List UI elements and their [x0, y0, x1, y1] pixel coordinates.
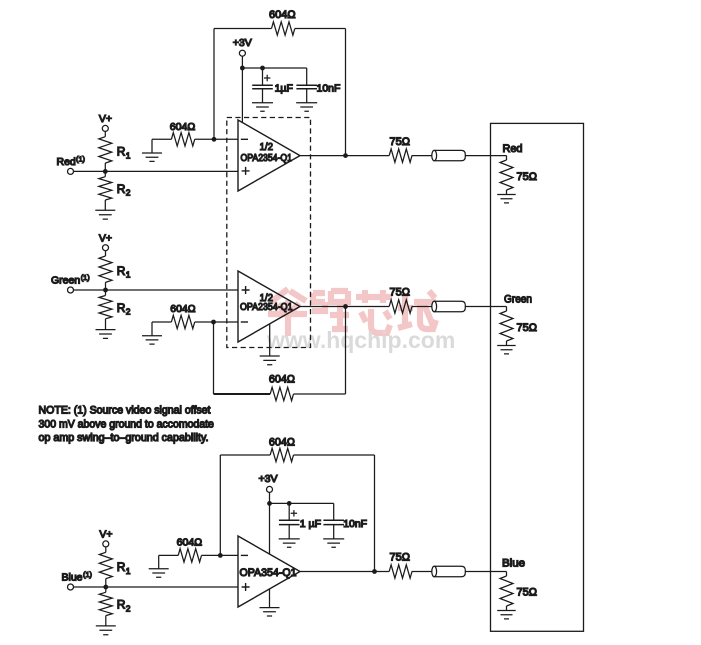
svg-text:75Ω: 75Ω	[517, 171, 538, 183]
wire +3V rail	[242, 67, 306, 69]
power V+ terminal (red divider)	[99, 113, 112, 137]
ground (dual op-amp V- pin)	[260, 324, 280, 365]
coax cable (red)	[432, 150, 507, 160]
ground (blue op-amp V- pin)	[260, 589, 280, 616]
svg-text:1µF: 1µF	[275, 83, 293, 95]
ground (under 1uF)	[252, 103, 273, 111]
svg-text:www.hqchip.com: www.hqchip.com	[266, 327, 455, 353]
node Green input: terminal and label	[51, 273, 90, 293]
svg-text:75Ω: 75Ω	[390, 552, 411, 564]
ground (under 10nF)	[296, 103, 317, 111]
junction red input node	[103, 169, 108, 174]
svg-text:R: R	[117, 301, 126, 315]
svg-text:V+: V+	[99, 232, 112, 244]
svg-text:Red: Red	[57, 156, 76, 168]
wire blue +3V rail	[270, 502, 334, 504]
ground (below blue R2)	[96, 626, 116, 635]
resistor 604ohm green feedback	[214, 374, 346, 401]
svg-text:75Ω: 75Ω	[390, 287, 411, 299]
svg-text:Green: Green	[51, 275, 80, 287]
resistor R1 (red divider)	[99, 137, 131, 172]
wire blue op-amp output	[300, 571, 389, 573]
watermark character 1 (hua)	[268, 289, 307, 336]
watermark character 2 (qiang)	[312, 291, 349, 329]
junction green inverting node	[211, 320, 216, 325]
svg-text:1/2: 1/2	[260, 141, 274, 153]
power V+ terminal (blue divider)	[99, 529, 112, 553]
resistor 75ohm blue termination	[500, 572, 537, 611]
ground (below green R2)	[96, 330, 116, 339]
svg-text:604Ω: 604Ω	[269, 9, 296, 21]
capacitor 10nF (blue op-amp bypass)	[323, 503, 367, 539]
junction +3V rail	[240, 66, 245, 71]
watermark character 4 (cheng)	[398, 291, 436, 329]
svg-text:OPA354-Q1: OPA354-Q1	[240, 567, 297, 579]
svg-text:op amp swing–to–ground capabil: op amp swing–to–ground capability.	[39, 432, 209, 444]
resistor 75ohm green series	[389, 287, 432, 313]
svg-text:Red: Red	[503, 143, 523, 155]
svg-text:2: 2	[126, 307, 131, 317]
resistor R2 (blue divider)	[99, 587, 131, 626]
op-amp U1A 1/2 OPA2354-Q1 (red)	[238, 120, 300, 191]
node Blue input: terminal and label	[62, 570, 93, 590]
resistor 604ohm blue gain	[159, 537, 238, 563]
ground (blue termination)	[497, 611, 516, 619]
capacitor 1uF (dual op-amp bypass)	[252, 68, 293, 103]
resistor 604ohm red feedback	[214, 9, 346, 35]
svg-text:R: R	[117, 560, 126, 574]
coax cable (green)	[432, 301, 507, 311]
ground (below red R2)	[95, 210, 115, 219]
ground (blue gain resistor)	[149, 555, 169, 577]
op-amp U1B 1/2 OPA2354-Q1 (green)	[238, 271, 300, 342]
resistor 75ohm red series	[389, 136, 432, 163]
junction blue 1uF branch	[287, 501, 292, 506]
junction green output/feedback	[343, 304, 348, 309]
svg-text:R: R	[117, 598, 126, 612]
ground (red gain resistor)	[142, 139, 162, 161]
wire red op-amp output	[300, 155, 389, 157]
junction blue inverting node	[218, 553, 223, 558]
svg-text:2: 2	[126, 188, 131, 198]
resistor 75ohm blue series	[389, 552, 432, 579]
svg-text:R: R	[117, 182, 126, 196]
junction blue +3V rail	[267, 501, 272, 506]
ground (green gain resistor)	[142, 322, 162, 344]
svg-text:604Ω: 604Ω	[170, 303, 195, 315]
dashed outline dual package OPA2354-Q1	[227, 118, 311, 348]
wire green feedback left vertical	[213, 322, 215, 394]
node Red input: terminal and label	[57, 154, 86, 174]
svg-text:Blue: Blue	[502, 558, 525, 570]
note text	[39, 405, 214, 444]
resistor R2 (red divider)	[99, 171, 131, 210]
svg-text:R: R	[117, 264, 126, 278]
power +3V terminal (blue op-amp)	[259, 473, 278, 503]
svg-text:(1): (1)	[81, 273, 90, 282]
svg-text:V+: V+	[99, 113, 112, 125]
svg-text:10nF: 10nF	[317, 83, 341, 95]
svg-text:Blue: Blue	[62, 572, 83, 584]
resistor 604ohm blue feedback	[220, 436, 374, 461]
svg-text:(1): (1)	[76, 154, 85, 163]
ground (green termination)	[497, 346, 516, 354]
wire red feedback right vertical	[345, 29, 347, 156]
ground (under blue 10nF)	[323, 539, 344, 547]
svg-text:NOTE: (1) Source video signal: NOTE: (1) Source video signal offset	[39, 405, 211, 417]
svg-text:OPA2354-Q1: OPA2354-Q1	[240, 302, 293, 313]
svg-text:604Ω: 604Ω	[269, 374, 295, 386]
svg-text:+3V: +3V	[233, 37, 252, 49]
wire Red input to op-amp +	[74, 170, 239, 172]
svg-text:75Ω: 75Ω	[390, 136, 411, 148]
svg-text:1: 1	[126, 270, 131, 280]
junction green input node	[103, 288, 108, 293]
junction red output/feedback	[343, 153, 348, 158]
svg-text:OPA2354-Q1: OPA2354-Q1	[241, 153, 293, 164]
svg-text:300 mV above ground to accomod: 300 mV above ground to accomodate	[39, 418, 214, 430]
junction blue input node	[103, 585, 108, 590]
svg-text:R: R	[117, 145, 126, 159]
svg-text:1 µF: 1 µF	[300, 518, 321, 530]
wire blue feedback left vertical	[219, 455, 221, 555]
wire green op-amp output	[300, 306, 389, 308]
svg-text:604Ω: 604Ω	[170, 121, 196, 133]
junction 1uF branch	[260, 66, 265, 71]
svg-text:+3V: +3V	[259, 473, 278, 485]
resistor 604ohm red gain	[152, 121, 238, 146]
svg-text:604Ω: 604Ω	[269, 436, 295, 448]
wire Green input to op-amp +	[74, 289, 239, 291]
svg-text:10nF: 10nF	[343, 518, 367, 530]
svg-text:2: 2	[126, 603, 131, 613]
resistor R1 (blue divider)	[99, 552, 131, 587]
resistor 75ohm green termination	[500, 307, 537, 346]
capacitor 10nF (dual op-amp bypass)	[296, 68, 340, 103]
svg-text:75Ω: 75Ω	[517, 322, 538, 334]
svg-text:V+: V+	[99, 529, 112, 541]
wire +3V to op-amp U1 supply pin	[241, 68, 243, 123]
resistor R2 (green divider)	[99, 290, 131, 330]
power V+ terminal (green divider)	[99, 232, 112, 256]
resistor 604ohm green gain	[152, 303, 238, 329]
capacitor 1uF (blue op-amp bypass)	[279, 503, 321, 539]
wire Blue input to op-amp +	[74, 586, 239, 588]
coax cable (blue)	[432, 566, 507, 576]
wire red feedback left vertical	[213, 29, 215, 140]
watermark character 3 (xin)	[356, 290, 392, 333]
svg-text:75Ω: 75Ω	[517, 587, 538, 599]
resistor R1 (green divider)	[99, 256, 131, 290]
resistor 75ohm red termination	[500, 156, 537, 195]
junction blue output/feedback	[372, 569, 377, 574]
display load box	[491, 123, 584, 631]
junction red inverting node	[212, 137, 217, 142]
svg-text:Green: Green	[504, 294, 532, 306]
op-amp U2 OPA354-Q1 (blue)	[238, 536, 300, 607]
svg-text:1: 1	[126, 150, 131, 160]
ground (red termination)	[497, 195, 516, 203]
wire green feedback right vertical	[345, 307, 347, 395]
svg-text:1: 1	[126, 566, 131, 576]
ground (under blue 1uF)	[279, 539, 300, 547]
wire blue feedback right vertical	[374, 455, 376, 572]
power +3V terminal (dual op-amp)	[233, 37, 252, 68]
svg-text:604Ω: 604Ω	[177, 537, 203, 549]
svg-text:(1): (1)	[83, 570, 92, 579]
wire +3V to op-amp U2 supply pin	[269, 503, 271, 554]
